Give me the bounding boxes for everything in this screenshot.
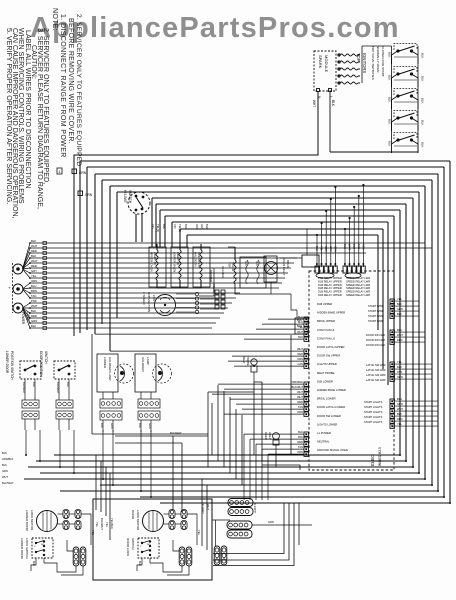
svg-text:BLK/WHT: BLK/WHT [56, 382, 60, 394]
halogen lamp [135, 354, 156, 392]
door lock switch [138, 538, 159, 558]
element box E2 [171, 247, 188, 287]
door lock motor connectors [169, 510, 175, 519]
top valve switch S5 [388, 133, 425, 154]
svg-text:DOOR SW LOWER: DOOR SW LOWER [317, 414, 341, 418]
svg-text:UPPER OVEN: UPPER OVEN [150, 252, 154, 272]
power cord connector rings [12, 263, 14, 313]
svg-text:BLU: BLU [397, 328, 402, 332]
svg-text:LATCH SW LWR: LATCH SW LWR [366, 378, 386, 382]
door lock motor [143, 511, 164, 532]
svg-text:MODULE: MODULE [324, 55, 329, 72]
svg-text:BLK: BLK [421, 53, 425, 59]
svg-text:START WIRE: START WIRE [368, 309, 384, 313]
relay block [295, 318, 308, 334]
wire spark module neutral [74, 92, 318, 337]
wire bus right drop [377, 235, 379, 330]
relay coil K1 [316, 273, 334, 278]
svg-text:LOCK MOTOR: LOCK MOTOR [30, 510, 34, 531]
svg-text:LIGHTS UPPER: LIGHTS UPPER [317, 362, 337, 366]
svg-text:VIO: VIO [173, 224, 177, 228]
note text [5, 8, 82, 219]
svg-text:IGN: IGN [244, 261, 248, 266]
svg-text:YEL/BLK: YEL/BLK [110, 518, 114, 529]
svg-text:BLK: BLK [162, 224, 166, 229]
svg-text:BROIL UPPER: BROIL UPPER [317, 319, 335, 323]
svg-text:BLK: BLK [397, 365, 402, 369]
element E2 lower oven light [179, 250, 181, 280]
svg-text:POSITION SWITCH: POSITION SWITCH [10, 351, 14, 380]
wire bus h [80, 160, 450, 162]
svg-text:SPARK: SPARK [318, 55, 323, 69]
svg-text:CLOSED FOR START: CLOSED FOR START [381, 46, 385, 77]
svg-text:BLK: BLK [205, 224, 209, 229]
ignitor tube box [240, 257, 266, 288]
svg-text:WHT: WHT [348, 244, 352, 250]
svg-text:RED: RED [298, 400, 304, 404]
svg-text:GRY: GRY [329, 246, 333, 252]
wire bus right drop [443, 167, 445, 497]
aux pin strip pair [214, 546, 220, 565]
svg-text:LAMP: LAMP [146, 357, 150, 365]
wire bus h [187, 234, 378, 236]
svg-text:RED: RED [298, 440, 304, 444]
svg-text:WHT: WHT [2, 475, 8, 479]
svg-text:RED: RED [31, 264, 37, 268]
wire mid horizontals [208, 391, 254, 393]
svg-text:BLK: BLK [397, 302, 402, 306]
svg-text:WHT: WHT [312, 100, 316, 107]
wire bus left drop [171, 222, 173, 247]
svg-text:SWITCH: SWITCH [128, 190, 132, 204]
top valve switch S4 [388, 111, 425, 132]
door lock motor [37, 511, 58, 532]
svg-text:2. SERVICER ONLY TO FEATURES E: 2. SERVICER ONLY TO FEATURES EQUIPPED [75, 14, 82, 166]
wire bus left drop [151, 198, 153, 247]
svg-text:ORN: ORN [195, 224, 199, 230]
svg-text:YEL(2): YEL(2) [156, 224, 160, 232]
wire connector down [187, 514, 197, 545]
svg-text:BLK: BLK [421, 76, 425, 82]
halogen lamp connector B [100, 411, 122, 420]
door sw connector [56, 400, 73, 408]
wire bus right drop [393, 216, 395, 401]
svg-text:OVEN LIGHT: OVEN LIGHT [282, 258, 286, 276]
svg-text:YEL: YEL [31, 274, 37, 278]
svg-text:RED: RED [324, 246, 328, 252]
svg-text:DOOR SW LWR: DOOR SW LWR [366, 343, 385, 347]
svg-text:BLK/WHT: BLK/WHT [22, 382, 26, 394]
svg-text:START LIGHTS: START LIGHTS [364, 415, 383, 419]
svg-text:YEL/RED: YEL/RED [221, 266, 225, 278]
wire lamp drops to sweep [25, 430, 27, 455]
svg-text:ELEC: ELEC [370, 455, 375, 466]
svg-text:AppliancePartsPros.com: AppliancePartsPros.com [30, 12, 400, 44]
svg-text:PNK: PNK [31, 299, 37, 303]
svg-text:WIRED H2.5: WIRED H2.5 [378, 447, 382, 466]
svg-text:LOWER DOOR: LOWER DOOR [5, 351, 9, 374]
wire bus left drop [94, 174, 96, 334]
door lock strip wires [67, 540, 73, 551]
svg-text:BLK: BLK [2, 463, 7, 467]
svg-text:YEL: YEL [95, 522, 99, 528]
svg-text:2. SERVICER ONLY TO FEATURES E: 2. SERVICER ONLY TO FEATURES EQUIPPED, [42, 28, 50, 184]
svg-text:CONV FAN HI: CONV FAN HI [317, 328, 334, 332]
element E3 courtesy light [200, 250, 202, 280]
control left connector P1 [304, 317, 308, 341]
svg-text:DLB RELAY UPPER: DLB RELAY UPPER [318, 290, 342, 294]
svg-text:NO: NO [41, 544, 45, 546]
control centre text [317, 302, 348, 452]
wire bus right drop [418, 192, 420, 473]
svg-text:DOOR LATCH UPPER: DOOR LATCH UPPER [317, 345, 344, 349]
svg-text:DLB UPPER: DLB UPPER [317, 302, 332, 306]
svg-text:START WIRE: START WIRE [368, 314, 384, 318]
svg-text:BLK: BLK [298, 435, 303, 439]
door lock pin strips [73, 547, 79, 566]
svg-text:SPEED RELAY LWR: SPEED RELAY LWR [346, 283, 370, 287]
svg-text:HALOGEN: HALOGEN [194, 252, 198, 267]
svg-text:BLK: BLK [388, 141, 392, 147]
svg-text:BLU: BLU [298, 315, 303, 319]
wire bus h [102, 179, 432, 181]
svg-text:DOOR SW UPPER: DOOR SW UPPER [317, 354, 340, 358]
svg-text:BLK: BLK [421, 120, 425, 126]
svg-text:RED: RED [397, 417, 403, 421]
wire bus left drop [164, 216, 166, 247]
svg-text:BLK: BLK [388, 52, 392, 58]
svg-text:ORN: ORN [31, 279, 37, 283]
svg-text:BLK: BLK [2, 451, 7, 455]
wire bus h [95, 173, 438, 175]
wire bus right drop [405, 204, 407, 461]
ground GRN 2 [78, 191, 83, 196]
svg-text:ORN/BLK: ORN/BLK [292, 380, 304, 384]
svg-text:BLK: BLK [343, 244, 347, 249]
svg-text:BLK/WHT: BLK/WHT [291, 385, 303, 389]
wire motor to connector [164, 513, 170, 515]
wire mid horizontals 2 [115, 435, 208, 437]
svg-text:TAN: TAN [298, 405, 303, 409]
svg-text:BLK: BLK [100, 423, 104, 428]
blower relay connector [215, 290, 219, 294]
svg-text:BEFORE REMOVING WIRE COVER.: BEFORE REMOVING WIRE COVER. [67, 18, 74, 144]
svg-text:TOP VALVE SWITCHES: TOP VALVE SWITCHES [371, 46, 375, 80]
svg-text:BLK: BLK [31, 324, 36, 328]
svg-text:GRN: GRN [79, 171, 87, 175]
svg-text:DOOR LOCK: DOOR LOCK [126, 538, 130, 556]
svg-text:TAN: TAN [397, 370, 402, 374]
surface valve coil [234, 260, 236, 284]
svg-text:GRN: GRN [268, 520, 274, 524]
svg-text:GRN: GRN [2, 469, 8, 473]
wire bus right drop [382, 229, 384, 369]
svg-text:BLK: BLK [331, 100, 335, 107]
svg-text:BLU: BLU [397, 397, 402, 401]
fan terminal strip [195, 292, 198, 295]
svg-text:WHT: WHT [397, 407, 403, 411]
svg-text:DLB RELAY UPPER: DLB RELAY UPPER [318, 279, 342, 283]
svg-text:BLK: BLK [421, 98, 425, 104]
svg-text:BLK: BLK [388, 119, 392, 125]
door lock area verticals [95, 455, 97, 510]
svg-text:NORMALLY OPEN: NORMALLY OPEN [376, 46, 380, 72]
wire hi-limit drops [135, 214, 137, 242]
control top header J2 [343, 263, 365, 273]
top valve switch S2 [388, 67, 425, 88]
svg-text:OVEN: OVEN [264, 432, 268, 440]
ignitor output terminals [338, 54, 360, 56]
svg-text:YEL(2): YEL(2) [178, 224, 182, 232]
svg-text:BLK: BLK [397, 412, 402, 416]
svg-text:BLK: BLK [138, 423, 142, 428]
svg-text:LIGHT (2): LIGHT (2) [176, 252, 180, 265]
oven connector cluster 1 [228, 499, 253, 507]
svg-text:GRN: GRN [85, 193, 93, 197]
svg-text:GRN: GRN [397, 402, 403, 406]
svg-text:IGNITORS: IGNITORS [362, 53, 367, 73]
svg-text:LOWER OVEN: LOWER OVEN [173, 252, 177, 272]
svg-text:BLK: BLK [184, 224, 188, 229]
svg-text:LOWER: LOWER [103, 357, 107, 369]
svg-text:LATCH SW LWR: LATCH SW LWR [366, 368, 386, 372]
control right connector P5 [390, 299, 394, 318]
wire bus right drop [424, 186, 426, 479]
svg-text:WHT: WHT [31, 244, 38, 248]
svg-text:NEUTRAL: NEUTRAL [317, 440, 330, 444]
wire ignitor switch bus [391, 46, 393, 144]
svg-text:DLB RELAY UPPER: DLB RELAY UPPER [318, 286, 342, 290]
svg-text:DOOR LATCH LOWER: DOOR LATCH LOWER [317, 405, 345, 409]
door lock outline box [93, 499, 212, 580]
svg-text:GRY: GRY [200, 224, 204, 230]
svg-text:BULB: BULB [286, 260, 290, 268]
halogen lamp connector A [100, 399, 122, 408]
wire bus right drop [412, 198, 414, 467]
door lock strip wires [173, 540, 179, 551]
svg-text:LIGHTS LOWER: LIGHTS LOWER [317, 422, 337, 426]
wire bulb drop [270, 282, 272, 294]
svg-text:BLK: BLK [31, 239, 36, 243]
svg-text:RED: RED [298, 352, 304, 356]
wire valve feed [228, 246, 235, 248]
svg-text:BLU: BLU [298, 320, 303, 324]
svg-text:COURTESY: COURTESY [197, 252, 201, 269]
element E1 upper oven light [156, 250, 158, 280]
wire bus h [165, 215, 394, 217]
control right wires [394, 300, 419, 302]
svg-text:HI LIMIT: HI LIMIT [123, 190, 127, 203]
door sw connector [22, 400, 39, 408]
door lock switch [32, 538, 53, 558]
wire bus h [117, 191, 419, 193]
svg-text:TAN: TAN [357, 244, 361, 249]
control left connector P3 [304, 382, 308, 416]
svg-text:BLK: BLK [66, 382, 70, 387]
wire bus left drop [86, 167, 88, 330]
control left wire labels [268, 318, 304, 320]
convection fan motor M1 [155, 295, 176, 316]
spark module U1 [314, 51, 336, 91]
svg-text:RELAY: RELAY [212, 284, 216, 293]
svg-text:BLOWER: BLOWER [209, 270, 213, 282]
svg-text:START WIRE: START WIRE [368, 304, 384, 308]
bottom right vertical stubs [298, 503, 300, 545]
svg-text:BLK/WHT: BLK/WHT [2, 481, 14, 485]
wire bus right drop [387, 222, 389, 385]
svg-text:BLK: BLK [388, 97, 392, 103]
svg-text:WHT: WHT [297, 347, 303, 351]
svg-text:BRN: BRN [31, 289, 37, 293]
svg-text:WHEN SERVICING CONTROLS. WIRI: WHEN SERVICING CONTROLS. WIRING PROBLEMS [17, 28, 25, 204]
svg-text:LOWER DOOR: LOWER DOOR [20, 538, 24, 560]
wire bus right drop [399, 210, 401, 455]
svg-text:BLK/WHT: BLK/WHT [253, 503, 255, 514]
svg-text:1. DISCONNECT RANGE FROM POWER: 1. DISCONNECT RANGE FROM POWER [59, 14, 66, 158]
svg-text:HIDDEN BAKE UPPER: HIDDEN BAKE UPPER [317, 311, 345, 315]
control right inner text [364, 304, 386, 424]
door lock motor connectors [63, 510, 69, 519]
wire element bottoms [157, 287, 201, 289]
svg-text:WHT: WHT [31, 259, 38, 263]
svg-text:WHT: WHT [297, 330, 303, 334]
svg-text:YEL: YEL [397, 422, 402, 426]
wire meat probe [254, 378, 262, 382]
svg-text:BLU: BLU [352, 244, 356, 249]
aux strip wires [215, 520, 217, 546]
svg-text:2 SPEED: 2 SPEED [142, 292, 146, 306]
svg-text:SPEED RELAY LWR: SPEED RELAY LWR [346, 290, 370, 294]
wire bus left drop [186, 235, 188, 247]
door lock switch tails [31, 558, 36, 571]
svg-text:YEL: YEL [320, 246, 324, 251]
svg-text:YEL: YEL [397, 297, 402, 301]
halogen lamp connector B [138, 411, 160, 420]
svg-text:RED: RED [361, 244, 365, 250]
bottom right wires [213, 503, 284, 554]
lamp area outline [91, 334, 93, 434]
spark module pin L [329, 89, 332, 92]
svg-text:SPEED RELAY LWR: SPEED RELAY LWR [346, 286, 370, 290]
svg-text:CONVECTION: CONVECTION [147, 292, 151, 312]
wire connector down [81, 514, 91, 545]
wire bus left drop [79, 161, 81, 333]
svg-text:WHT: WHT [31, 304, 38, 308]
svg-text:GRN: GRN [31, 319, 37, 323]
svg-text:ORN: ORN [397, 375, 403, 379]
svg-text:BLK: BLK [298, 430, 303, 434]
svg-text:VALVE: VALVE [231, 262, 235, 271]
svg-text:IGN: IGN [255, 261, 259, 266]
svg-text:BLU: BLU [315, 246, 319, 251]
svg-text:DLB RELAY UPPER: DLB RELAY UPPER [318, 276, 342, 280]
element box E3 [193, 247, 210, 287]
wire bus left drop [179, 229, 181, 247]
door lock switch tails [137, 558, 142, 571]
control left connector P2 [304, 349, 308, 368]
wire bus left drop [101, 180, 103, 324]
wire bus left drop [159, 210, 161, 247]
svg-text:LOCK MOTOR: LOCK MOTOR [136, 510, 140, 531]
svg-text:BLU: BLU [31, 284, 36, 288]
svg-text:ORN: ORN [297, 410, 303, 414]
svg-text:START LIGHTS: START LIGHTS [364, 405, 383, 409]
oven connector cluster 2 [227, 521, 252, 529]
svg-text:MEAT: MEAT [242, 356, 246, 364]
wire header risers [316, 235, 318, 267]
svg-text:TAN: TAN [298, 445, 303, 449]
svg-text:DOOR: DOOR [131, 510, 135, 520]
svg-text:RED: RED [31, 249, 37, 253]
svg-text:BROIL LOWER: BROIL LOWER [317, 397, 336, 401]
svg-text:BLK: BLK [421, 142, 425, 148]
halogen lamp connector A [138, 399, 160, 408]
svg-text:GRN: GRN [148, 423, 152, 429]
svg-text:LOCK SWITCH: LOCK SWITCH [25, 538, 29, 559]
svg-text:BLK: BLK [397, 312, 402, 316]
svg-text:LIGHT (2): LIGHT (2) [153, 252, 157, 265]
svg-text:BLK/WHT: BLK/WHT [100, 518, 104, 530]
svg-text:BLK: BLK [31, 309, 36, 313]
wire bus h [172, 221, 388, 223]
power cord wires fan [23, 243, 426, 269]
control board U2 dashed outline [309, 271, 394, 470]
svg-text:DLB LOWER: DLB LOWER [317, 379, 333, 383]
svg-text:START LIGHTS: START LIGHTS [364, 410, 383, 414]
svg-text:DLB RELAY UPPER: DLB RELAY UPPER [318, 283, 342, 287]
svg-text:BLK: BLK [32, 561, 35, 566]
svg-text:ORN: ORN [297, 450, 303, 454]
svg-text:SPEED RELAY LWR: SPEED RELAY LWR [346, 276, 370, 280]
wire fan to right [199, 268, 214, 296]
svg-text:HALOGEN: HALOGEN [141, 357, 145, 372]
svg-text:SWITCH: SWITCH [131, 538, 135, 550]
control top header J1 [315, 263, 337, 273]
control right connector P6 [390, 330, 394, 344]
ground GRN 1 [72, 169, 77, 174]
wire fan terminals to relay [200, 298, 215, 300]
control left connector P4 [304, 432, 308, 456]
svg-text:DOOR SW LWR: DOOR SW LWR [366, 338, 385, 342]
svg-text:ORN/BLK: ORN/BLK [2, 457, 14, 461]
svg-text:CONV FAN LO: CONV FAN LO [317, 336, 335, 340]
svg-text:DOOR POSITION: DOOR POSITION [39, 351, 43, 377]
svg-text:WHT: WHT [397, 333, 403, 337]
svg-text:RED: RED [397, 338, 403, 342]
hi-limit switch S10 [128, 192, 150, 214]
svg-text:MEAT PROBE: MEAT PROBE [317, 371, 335, 375]
wire bus h [87, 166, 444, 168]
svg-text:VIO: VIO [151, 224, 155, 228]
svg-text:NO: NO [147, 544, 151, 546]
svg-text:L1 POWER: L1 POWER [317, 431, 331, 435]
svg-text:YEL: YEL [397, 360, 402, 364]
svg-text:LOWER DOOR: LOWER DOOR [25, 510, 29, 532]
svg-text:TOP: TOP [356, 53, 361, 62]
svg-text:WHT: WHT [297, 390, 303, 394]
wire bus right drop [437, 174, 439, 491]
svg-text:ORN: ORN [333, 246, 337, 252]
svg-text:RED: RED [31, 314, 37, 318]
svg-text:SPEED RELAY LWR: SPEED RELAY LWR [346, 279, 370, 283]
svg-text:ORN: ORN [297, 357, 303, 361]
svg-text:CAN: CAN [298, 362, 304, 366]
bottom sweep wires [54, 454, 400, 456]
wire bus right drop [449, 161, 451, 503]
svg-text:NOTE:: NOTE: [51, 8, 58, 31]
wire motor to connector [58, 513, 64, 515]
wire bus h [160, 209, 400, 211]
